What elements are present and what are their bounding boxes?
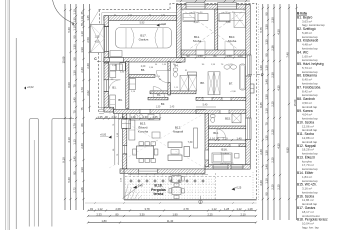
svg-text:55: 55 [80,23,84,26]
svg-text:1,30: 1,30 [156,107,161,109]
svg-text:+0,25: +0,25 [235,186,242,189]
wall bottom house (left part) [120,169,205,174]
window top 2 [218,3,237,9]
wall left lower wing [104,63,109,80]
window kitchen wall [123,146,127,154]
dim column right D [279,4,281,220]
svg-text:2,02: 2,02 [111,115,117,119]
car in garage [116,28,172,49]
pergola posts [130,180,133,183]
door arc corridor 2 [153,87,165,99]
dim row left wing bottom [96,118,160,120]
terrace door opening [139,169,158,174]
svg-text:5,30: 5,30 [67,177,71,183]
svg-text:1,30: 1,30 [72,44,76,50]
wall corridor top [150,91,196,94]
svg-text:1,10: 1,10 [264,108,268,114]
shelf B5 [120,63,126,71]
svg-text:2,25: 2,25 [270,157,274,163]
ticks on y203 line [94,202,96,204]
sofa set [168,142,182,148]
corner closet B10 [234,13,246,28]
svg-text:B7.: B7. [229,82,233,86]
svg-text:1,45: 1,45 [72,156,76,162]
svg-text:1,28: 1,28 [247,207,253,211]
dim column left B [70,4,72,210]
svg-text:4,35: 4,35 [276,143,280,149]
fence line left 2 [7,0,9,230]
svg-text:Nappali: Nappali [173,130,184,134]
fence line left 3 [9,0,11,230]
ridge diagonals living [109,113,205,168]
wall above corridor right [196,97,246,100]
wardrobes with X row1 [180,75,188,91]
door arc B10 [225,41,234,50]
svg-text:4,10: 4,10 [67,137,71,143]
svg-text:1,40: 1,40 [236,136,242,140]
svg-text:1,10: 1,10 [72,25,76,31]
dim row mid right [209,139,246,141]
svg-text:2,30: 2,30 [80,143,84,149]
svg-text:1,30: 1,30 [264,150,268,156]
terrace steps [123,184,143,199]
wall garage left [104,16,109,27]
svg-text:Szoba: Szoba [193,39,202,43]
closet B11 [183,14,195,22]
svg-text:2,25: 2,25 [270,129,274,135]
door arc B11 [196,41,205,50]
wall B6 horizontal [129,75,155,78]
svg-text:+0,00: +0,00 [160,23,167,26]
svg-text:2,72: 2,72 [72,187,76,193]
dim row bottom 3 [88,222,256,224]
svg-text:45: 45 [80,11,84,14]
svg-text:1,10: 1,10 [264,178,268,184]
svg-text:1,90: 1,90 [80,47,84,53]
svg-text:3,30: 3,30 [259,180,263,186]
svg-text:1,30: 1,30 [259,65,263,71]
garage door opening [104,27,109,52]
wall B2 bottom [148,97,168,100]
svg-text:9,10: 9,10 [61,157,65,163]
svg-text:1,10: 1,10 [210,136,216,140]
svg-text:B3.: B3. [161,102,165,106]
kitchen counter [130,114,160,121]
svg-text:4,35: 4,35 [276,85,280,91]
svg-text:3,30: 3,30 [139,212,145,216]
svg-text:2,30: 2,30 [270,17,274,23]
front door opening [104,80,109,92]
door opening B3 [168,71,170,83]
door gap in it [205,150,209,160]
svg-text:1,35: 1,35 [95,36,100,39]
dim row bottom 2 [88,215,256,217]
eave line top [102,12,177,14]
entry steps [99,107,104,109]
svg-text:B8.: B8. [200,81,204,85]
wall bottom of left wing [104,107,114,112]
dim column left A [64,4,66,210]
svg-text:1,96: 1,96 [80,187,84,193]
svg-text:1,30: 1,30 [72,70,76,76]
svg-text:6,45: 6,45 [259,102,263,108]
svg-text:1,10: 1,10 [72,9,76,15]
svg-text:B2.: B2. [157,93,161,97]
svg-text:8,00: 8,00 [67,82,71,88]
kitchen counter left [129,120,135,140]
closet B10 [219,14,230,22]
svg-text:Szoba: Szoba [228,39,237,43]
walkway corner line [52,119,74,227]
svg-text:83: 83 [80,123,84,126]
flue box [122,119,131,129]
dim column right F [296,4,298,220]
svg-text:1,50: 1,50 [226,54,232,58]
roof overhang outline [99,4,257,200]
svg-text:2,10: 2,10 [240,212,246,216]
svg-text:terasz: terasz [153,192,163,196]
wall B12/B16 vertical [205,114,209,167]
wall left below door [104,92,109,112]
window right 1 [245,55,251,76]
svg-text:90: 90 [72,35,76,38]
dim column right E [288,4,290,220]
svg-text:+0,02: +0,02 [27,85,34,89]
svg-text:3,60: 3,60 [226,21,231,24]
svg-text:1,20: 1,20 [130,115,136,119]
svg-text:2,20: 2,20 [141,66,146,68]
door gap B11 [196,50,205,55]
svg-text:2,68: 2,68 [115,207,121,211]
svg-text:1,90: 1,90 [80,167,84,173]
svg-text:pm 90 pm 90: pm 90 pm 90 [222,12,236,14]
svg-text:B6.: B6. [141,68,145,72]
terrace right boundary dashed [215,173,217,200]
fence line left 1 [5,0,7,230]
wall garage left lower [104,51,109,63]
svg-text:75: 75 [80,107,84,110]
svg-text:90: 90 [72,57,76,60]
svg-text:1,10: 1,10 [80,31,84,37]
bed B16 [212,153,232,163]
svg-text:1,90: 1,90 [172,212,178,216]
svg-text:1,70: 1,70 [80,87,84,93]
right dotted line [258,4,260,200]
svg-text:1,45: 1,45 [72,97,76,103]
svg-text:B9.: B9. [118,98,122,102]
door gap right [220,110,229,114]
leader arc top-left [53,0,75,24]
top ticks [180,0,182,2]
wall B16 top [209,144,246,147]
svg-text:2,02: 2,02 [86,90,90,96]
ridge dashed diagonals bedrooms [181,9,246,55]
door gap B16 [230,144,239,147]
property line [15,38,17,229]
svg-text:1,10: 1,10 [264,65,268,71]
svg-text:2,30: 2,30 [80,67,84,73]
svg-text:2,10: 2,10 [222,136,228,140]
svg-text:fagy. ker. lap: fagy. ker. lap [302,225,319,229]
desk B11 [198,14,208,21]
toilet B15 [211,115,216,118]
pantry shelves B9 [110,95,116,109]
svg-text:2,30: 2,30 [270,72,274,78]
tv bench [194,128,198,148]
svg-text:+0,00: +0,00 [100,133,107,136]
window right 2 [245,118,251,140]
svg-text:5,30: 5,30 [67,27,71,33]
svg-text:1,35: 1,35 [97,115,103,119]
pergola dashed lines [125,176,253,178]
dining table [137,146,154,159]
garage bench [110,51,122,57]
svg-text:15,00: 15,00 [61,56,65,63]
dim lines beside kitchen [114,112,116,165]
dim column left E [89,4,91,112]
svg-text:2,30: 2,30 [86,63,90,69]
driveway middle line [33,140,35,227]
kitchen island [152,132,160,138]
svg-text:2,33: 2,33 [96,212,102,216]
svg-text:83: 83 [72,171,76,174]
svg-text:1,35: 1,35 [264,39,268,45]
eave line left lower [101,53,103,109]
wall right [246,5,250,167]
terrace left edge [123,169,125,200]
svg-text:70: 70 [72,110,76,113]
svg-text:5,75: 5,75 [259,27,263,33]
wall mid vertical (B5/B6) [126,62,129,109]
door garage-B5 [109,58,123,62]
canopy roof diagonal [91,10,100,25]
svg-text:6,85: 6,85 [285,147,289,153]
svg-text:90: 90 [264,12,268,15]
svg-text:2,25: 2,25 [276,184,280,190]
flue box right wall [250,84,254,93]
svg-text:pm 90 pm 90: pm 90 pm 90 [221,163,235,165]
nightstand B16 [235,154,240,159]
svg-text:4,30: 4,30 [276,29,280,35]
wall main left (garage/bedroom divider) [177,5,182,63]
svg-text:2,50: 2,50 [86,37,90,43]
svg-text:1,30: 1,30 [264,24,268,30]
shelf B6/B9 [129,79,135,90]
striped closet left of B8 [188,72,197,75]
dim column right A [262,4,264,220]
small room walls B15 [209,126,246,129]
wall corridor bottom right [196,110,246,114]
svg-text:1,40: 1,40 [264,164,268,170]
svg-text:3,00: 3,00 [194,21,199,24]
svg-text:1,12: 1,12 [97,207,103,211]
svg-text:+2,90: +2,90 [230,91,236,93]
svg-text:11,40: 11,40 [167,219,174,223]
door gap B10 [225,50,234,55]
wall garage bottom [104,58,185,62]
label B14 door arcs [217,129,226,138]
window bottom B16 b [231,165,243,169]
terrace dotted paving [125,175,216,200]
svg-text:1,40: 1,40 [264,79,268,85]
door gaps corridor right wall [203,97,212,100]
svg-text:2,25: 2,25 [207,212,213,216]
svg-text:7,30: 7,30 [188,141,193,144]
svg-text:1,12: 1,12 [211,207,217,211]
dim column left D [83,4,85,210]
wall living top [114,110,206,114]
window top 1 [186,3,205,9]
window bottom B16 a [213,165,228,169]
circle marker D bottom [199,200,203,204]
svg-text:2,45: 2,45 [170,107,175,109]
sink B7 [224,65,230,69]
terrace top dim row [128,173,208,175]
svg-text:5,40: 5,40 [203,104,208,107]
dim row below bedrooms [181,57,246,59]
svg-text:7,40: 7,40 [285,52,289,58]
wall WC lower [168,83,170,95]
svg-text:1,70: 1,70 [72,123,76,129]
svg-text:1,10: 1,10 [80,16,84,22]
dim column right B [267,4,269,220]
svg-text:2,40: 2,40 [259,149,263,155]
svg-text:3,78: 3,78 [144,207,150,211]
house bottom edge line [124,199,257,201]
wall main top [177,5,251,10]
svg-text:1,28: 1,28 [224,207,230,211]
svg-text:5,93: 5,93 [140,22,145,25]
wall WC [168,62,170,71]
wardrobes with X row2 [208,72,214,95]
svg-text:1,35: 1,35 [86,15,90,21]
dim row bottom 1 [88,210,256,212]
washer boxes B5 [110,64,116,71]
svg-text:1,35: 1,35 [72,17,76,23]
wall bottom B16 [205,165,250,170]
svg-text:2,36: 2,36 [270,45,274,51]
svg-text:B15.: B15. [225,117,231,121]
canopy diagonals [91,24,105,52]
svg-text:1,12: 1,12 [236,207,242,211]
kitchen left wall [123,112,127,119]
svg-text:4,50: 4,50 [95,41,100,44]
terrace table set [172,176,181,183]
svg-text:pm 90 pm 90: pm 90 pm 90 [190,12,204,14]
wall below bedrooms [181,50,246,55]
svg-text:1,30: 1,30 [142,115,148,119]
svg-text:1,50: 1,50 [197,54,203,58]
svg-text:2,25: 2,25 [270,184,274,190]
svg-text:2,45: 2,45 [152,115,158,119]
dim column right C [273,4,275,220]
eave line left upper [101,13,103,25]
bathtub B7 [240,64,246,90]
svg-text:2,25: 2,25 [270,101,274,107]
svg-text:2,78: 2,78 [183,207,189,211]
door arc corridor 1 [156,71,168,83]
svg-text:90: 90 [264,192,268,195]
driveway U edge [29,119,38,227]
svg-text:Konyha: Konyha [138,130,149,134]
toilet B4 [173,68,178,71]
shower B15 [232,114,241,123]
svg-text:1,00: 1,00 [237,54,243,58]
dim column left C [75,4,77,210]
svg-text:70: 70 [72,84,76,87]
svg-text:1,13: 1,13 [72,139,76,145]
svg-text:1,80: 1,80 [101,219,107,223]
wall between B11 B10 [215,9,218,50]
svg-text:1,35: 1,35 [264,135,268,141]
wall garage top [104,16,177,21]
svg-text:B1.: B1. [112,86,116,90]
svg-text:90: 90 [264,53,268,56]
canopy B1 outline [91,24,105,52]
door arc front entry [109,80,121,92]
svg-text:B14.: B14. [213,131,219,135]
svg-text:Garázs: Garázs [139,38,149,42]
svg-text:1,30: 1,30 [264,94,268,100]
svg-text:70: 70 [264,122,268,125]
house bottom edge line2 [85,202,257,204]
door gap kitchen [140,110,150,114]
